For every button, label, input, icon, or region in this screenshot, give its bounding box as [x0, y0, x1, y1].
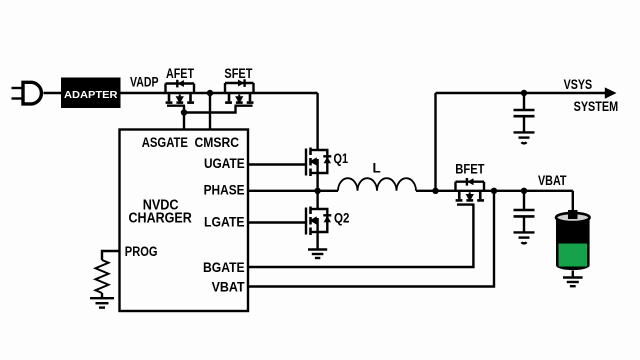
junction VBAT capacitor node [521, 188, 527, 194]
svg-text:BGATE: BGATE [203, 260, 245, 275]
svg-text:VBAT: VBAT [538, 173, 567, 188]
transistor BFET [456, 178, 485, 205]
wire LGATE [248, 221, 306, 223]
wire VSYS vertical [434, 93, 436, 191]
junction BFET left node [432, 188, 438, 194]
wire BGATE [248, 205, 473, 267]
arrow to SYSTEM [605, 87, 617, 98]
wire UGATE [248, 163, 306, 165]
junction VSYS capacitor node [521, 90, 527, 96]
junction BFET right node [491, 188, 497, 194]
transistor Q2 [306, 191, 331, 235]
wire Q2 source to ground [316, 232, 318, 249]
svg-text:SYSTEM: SYSTEM [574, 99, 619, 114]
wire inductor to VBAT rail through BFET to battery [416, 190, 573, 192]
svg-text:BFET: BFET [455, 162, 485, 177]
svg-text:VBAT: VBAT [212, 279, 246, 294]
wire PROG [102, 251, 120, 260]
ground C1 [514, 132, 535, 143]
wire AFET gate lead [183, 106, 185, 113]
svg-text:CHARGER: CHARGER [129, 211, 193, 227]
svg-text:PHASE: PHASE [204, 183, 245, 198]
battery BT1 [556, 191, 590, 277]
resistor RPROG [96, 260, 109, 293]
ground C2 [514, 232, 535, 243]
wire Q1 drain from rail [316, 93, 318, 151]
ground RPROG [90, 298, 114, 307]
svg-text:ADAPTER: ADAPTER [64, 89, 118, 101]
adapter block ADAPTER [61, 78, 121, 109]
svg-text:SFET: SFET [224, 66, 253, 81]
ground Q2 [308, 250, 327, 259]
wire VADP rail from adapter through AFET and SFET to Q1 corner [121, 92, 318, 94]
svg-text:LGATE: LGATE [204, 214, 245, 229]
ground battery BT1 [563, 278, 583, 287]
svg-text:UGATE: UGATE [204, 156, 245, 171]
svg-text:Q2: Q2 [334, 210, 350, 225]
svg-text:ASGATE: ASGATE [142, 135, 188, 150]
wire Q1 source to PHASE [316, 173, 318, 191]
svg-text:PROG: PROG [125, 244, 158, 259]
svg-text:L: L [373, 161, 381, 176]
capacitor C1 (VSYS) [514, 93, 535, 132]
svg-text:CMSRC: CMSRC [195, 135, 240, 150]
wire PHASE [248, 190, 338, 192]
wire gate bus to SFET gate [184, 106, 236, 113]
svg-text:AFET: AFET [166, 66, 195, 81]
svg-text:Q1: Q1 [334, 151, 349, 166]
capacitor C2 (VBAT) [514, 191, 535, 232]
AC plug P1 [12, 82, 42, 104]
wire resistor to ground [101, 293, 103, 298]
svg-text:VSYS: VSYS [564, 77, 593, 92]
svg-text:VADP: VADP [130, 75, 159, 90]
wire CMSRC stub [209, 93, 211, 130]
junction PHASE node [314, 188, 320, 194]
junction ASGATE node [181, 109, 187, 115]
wire plug to adapter [44, 92, 62, 94]
transistor Q1 [306, 148, 331, 177]
inductor L [338, 178, 416, 191]
wire VSYS rail [436, 92, 609, 94]
wire ASGATE stub [183, 113, 185, 130]
transistor AFET [166, 80, 195, 106]
IC U1 NVDC CHARGER [120, 130, 249, 312]
wire VBAT sense [248, 191, 494, 287]
transistor SFET [225, 79, 254, 105]
junction CMSRC node [207, 90, 213, 96]
